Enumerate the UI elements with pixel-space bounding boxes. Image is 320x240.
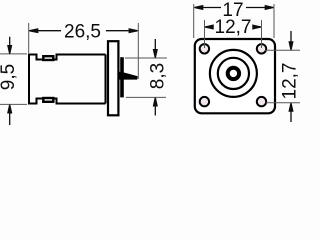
svg-text:12,7: 12,7 bbox=[280, 63, 301, 100]
svg-text:9,5: 9,5 bbox=[0, 64, 19, 90]
svg-text:8,3: 8,3 bbox=[148, 63, 169, 89]
svg-text:26,5: 26,5 bbox=[64, 22, 101, 43]
svg-text:12,7: 12,7 bbox=[215, 17, 252, 38]
